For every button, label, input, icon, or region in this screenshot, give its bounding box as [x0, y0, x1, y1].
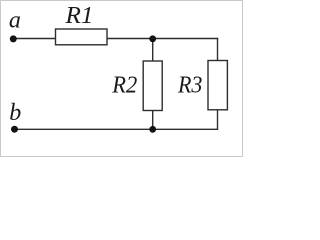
wire bottom junction to R3 corner [153, 128, 219, 130]
wire right drop from corner to R3 [217, 38, 219, 61]
svg-text:a: a [9, 8, 21, 34]
svg-text:R3: R3 [177, 73, 202, 99]
wire top junction to top-right corner [153, 38, 218, 40]
wire R2 to bottom junction [152, 111, 154, 130]
node b [9, 100, 21, 133]
resistor R2 [143, 61, 162, 111]
wire R3 down to bottom corner [217, 110, 219, 130]
junction node (bottom, R2/R3/b) [149, 126, 156, 133]
wire top junction down to R2 [152, 39, 154, 62]
svg-text:b: b [9, 100, 21, 126]
wire b to bottom junction [15, 128, 153, 130]
svg-text:R1: R1 [64, 3, 93, 29]
svg-text:R2: R2 [111, 73, 137, 99]
wire a to R1 [13, 38, 56, 40]
resistor R1 [56, 29, 108, 45]
resistor R3 [208, 61, 227, 110]
node a [9, 8, 21, 43]
wire R1 to top junction [107, 38, 153, 40]
junction node (top, R1/R2/R3) [149, 35, 156, 42]
